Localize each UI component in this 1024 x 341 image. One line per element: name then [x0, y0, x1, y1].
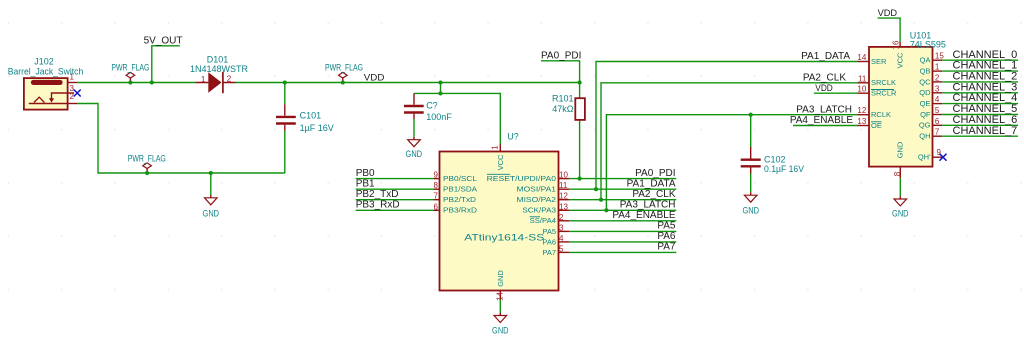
junction 5V_OUT tap [150, 80, 154, 84]
wire VDD tap to C? and U? VCC [414, 83, 500, 144]
pin 9 QH' [933, 156, 943, 158]
wire PA1_DATA run [596, 62, 858, 190]
svg-text:8: 8 [893, 171, 902, 176]
svg-text:QG: QG [919, 121, 931, 130]
wire PB0 label [356, 178, 434, 180]
wire CHANNEL_4 [942, 103, 1018, 105]
junction PWR_FLAG2 [341, 80, 345, 84]
pin 2 SS/PA4 [559, 220, 570, 222]
svg-text:5V_OUT: 5V_OUT [144, 36, 183, 47]
svg-text:1: 1 [70, 73, 75, 82]
pin 5 QF [933, 114, 943, 116]
svg-text:1: 1 [491, 145, 500, 150]
svg-text:5: 5 [935, 106, 940, 115]
pin 12 MISO/PA2 [559, 199, 570, 201]
wire CHANNEL_7 [942, 135, 1018, 137]
svg-text:PA2_CLK: PA2_CLK [632, 189, 676, 200]
svg-text:8: 8 [434, 181, 439, 190]
wire CHANNEL_1 [942, 70, 1018, 72]
svg-text:PA5: PA5 [542, 227, 556, 236]
svg-text:14: 14 [857, 53, 866, 62]
pin 1 J102 [68, 82, 77, 84]
wire PB3_RxD label [356, 209, 434, 211]
svg-text:VDD: VDD [364, 72, 385, 83]
svg-text:QA: QA [920, 56, 931, 65]
no-connect J102 pin3 [74, 90, 81, 97]
svg-text:VDD: VDD [815, 83, 833, 94]
pin 10 SRCLR [858, 92, 870, 94]
svg-text:7: 7 [434, 192, 439, 201]
svg-text:SRCLK: SRCLK [871, 78, 896, 87]
svg-text:SER: SER [871, 57, 887, 66]
wire CHANNEL_5 [942, 114, 1018, 116]
wire PA0_PDI row [569, 178, 676, 180]
svg-text:47kΩ: 47kΩ [552, 104, 574, 114]
svg-text:13: 13 [559, 202, 568, 211]
svg-text:4: 4 [935, 95, 940, 104]
svg-text:QE: QE [920, 99, 931, 108]
svg-text:16: 16 [892, 40, 901, 49]
label PA4_ENABLE right [790, 115, 858, 126]
svg-text:PA2_CLK: PA2_CLK [803, 73, 847, 84]
svg-text:PA7: PA7 [542, 248, 556, 257]
label VDD top right [878, 8, 901, 42]
pin 11 MOSI/PA1 [559, 188, 570, 190]
wire PB2_TxD label [356, 199, 434, 201]
svg-text:GND: GND [406, 149, 423, 159]
pin 2 J102 [68, 103, 77, 105]
wire CHANNEL_2 [942, 81, 1018, 83]
ground GND under C102 [742, 195, 759, 215]
pin 4 PA6 [559, 241, 570, 243]
svg-text:PA6: PA6 [657, 231, 676, 242]
diode D101 1N4148WSTR [190, 55, 249, 94]
svg-text:2: 2 [227, 75, 232, 84]
svg-text:PB3/RxD: PB3/RxD [443, 206, 478, 215]
power flag PWR_FLAG 3 [128, 153, 166, 173]
pin 5 PA7 [559, 251, 570, 253]
svg-text:PA0_PDI: PA0_PDI [541, 50, 581, 61]
pin 3 QD [933, 92, 943, 94]
svg-text:U?: U? [507, 131, 519, 141]
junction R101 top [578, 80, 582, 84]
svg-text:10: 10 [857, 85, 866, 94]
pin 16 VCC [899, 42, 901, 47]
svg-text:11: 11 [559, 181, 568, 190]
svg-text:GND: GND [895, 141, 904, 158]
wire PA7 row [569, 251, 676, 253]
wire PA1_DATA row [569, 188, 676, 190]
svg-text:4: 4 [559, 234, 564, 243]
junction PWR_FLAG3 [145, 171, 149, 175]
svg-text:9: 9 [434, 171, 439, 180]
wire CHANNEL_0 [942, 59, 1018, 61]
svg-text:11: 11 [858, 74, 867, 83]
svg-text:MISO/PA2: MISO/PA2 [517, 195, 557, 204]
label PA0_PDI top [541, 50, 581, 82]
connector J102 Barrel_Jack_Switch [8, 57, 84, 110]
svg-text:13: 13 [857, 117, 866, 126]
pin 13 OE [858, 125, 870, 127]
capacitor C102 0.1uF 16V [741, 115, 804, 196]
svg-text:RESET/UPDI/PA0: RESET/UPDI/PA0 [487, 174, 556, 183]
svg-text:3: 3 [935, 84, 940, 93]
svg-text:GND: GND [892, 208, 909, 218]
svg-text:6: 6 [935, 117, 940, 126]
power flag PWR_FLAG 1 [111, 63, 149, 83]
svg-text:15: 15 [935, 52, 944, 61]
ground GND under C? [406, 140, 423, 160]
svg-text:PB3_RxD: PB3_RxD [356, 200, 400, 211]
svg-text:GND: GND [742, 206, 759, 216]
junction R101 bottom [578, 177, 582, 181]
pin 6 QG [933, 124, 943, 126]
junction VDD branch [438, 91, 442, 95]
pin 3 PA5 [559, 230, 570, 232]
junction PA3 riser [604, 208, 608, 212]
svg-text:PA4_ENABLE: PA4_ENABLE [790, 115, 854, 126]
svg-text:PWR_FLAG: PWR_FLAG [325, 63, 363, 73]
label VDD right [814, 83, 858, 94]
svg-text:PB2/TxD: PB2/TxD [443, 195, 477, 204]
mcu U? ATtiny1614-SS [433, 131, 569, 301]
resistor R101 47k [552, 83, 585, 179]
wire PA6 row [569, 241, 676, 243]
ground GND under U101 [892, 178, 909, 218]
svg-text:C?: C? [426, 100, 438, 110]
ground GND lower-left [203, 173, 220, 219]
svg-text:QD: QD [919, 88, 931, 97]
wire PA4_ENABLE row [569, 220, 676, 222]
svg-text:12: 12 [857, 106, 866, 115]
pin 13 SCK/PA3 [559, 209, 570, 211]
svg-text:2: 2 [559, 213, 564, 222]
svg-text:PA7: PA7 [657, 242, 676, 253]
wire 5V rail [77, 82, 580, 84]
svg-text:6: 6 [434, 202, 439, 211]
svg-text:CHANNEL_7: CHANNEL_7 [953, 125, 1018, 137]
svg-text:3: 3 [559, 223, 564, 232]
svg-text:1µF 16V: 1µF 16V [300, 123, 334, 133]
wire CHANNEL_6 [942, 124, 1018, 126]
capacitor C? 100nF [404, 93, 452, 139]
svg-text:PA4_ENABLE: PA4_ENABLE [612, 210, 676, 221]
junction C101 top [283, 80, 287, 84]
svg-text:1N4148WSTR: 1N4148WSTR [190, 64, 249, 74]
power flag PWR_FLAG 2 [325, 63, 363, 83]
svg-text:7: 7 [935, 128, 940, 137]
junction VDD rail tap [438, 80, 442, 84]
wire PA3_LATCH row [569, 209, 676, 211]
pin 2 QC [933, 81, 943, 83]
svg-text:74LS595: 74LS595 [910, 39, 946, 49]
svg-text:PA6: PA6 [542, 237, 556, 246]
wire PA2_CLK row [569, 199, 676, 201]
svg-text:10: 10 [559, 171, 568, 180]
svg-text:SS/PA4: SS/PA4 [530, 216, 556, 225]
label 5V_OUT [144, 36, 183, 83]
svg-text:100nF: 100nF [426, 112, 452, 122]
svg-text:VCC: VCC [496, 154, 505, 170]
svg-text:R101: R101 [552, 93, 574, 103]
svg-text:QH: QH [919, 132, 930, 141]
pin 1 VCC [499, 144, 501, 152]
svg-text:PB0: PB0 [356, 168, 375, 179]
capacitor C101 1uF 16V [276, 83, 334, 174]
svg-text:SCK/PA3: SCK/PA3 [522, 206, 556, 215]
svg-text:PA0_PDI: PA0_PDI [635, 168, 675, 179]
svg-text:PA1_DATA: PA1_DATA [627, 179, 676, 190]
svg-text:VDD: VDD [878, 8, 898, 19]
wire PB1 label [356, 188, 434, 190]
svg-text:GND: GND [203, 209, 220, 219]
svg-text:PB1/SDA: PB1/SDA [443, 185, 477, 194]
svg-text:QF: QF [920, 110, 931, 119]
wire PA3_LATCH run [606, 115, 857, 211]
junction PA1 riser [594, 187, 598, 191]
shift register U101 74LS595 [857, 31, 945, 179]
svg-text:PA3_LATCH: PA3_LATCH [620, 200, 676, 211]
junction PA2 riser [599, 198, 603, 202]
wire PA2_CLK run [601, 83, 858, 200]
svg-text:MOSI/PA1: MOSI/PA1 [517, 185, 557, 194]
pin 10 RESET/UPDI/PA0 [559, 178, 570, 180]
pin 12 RCLK [858, 114, 870, 116]
wire jack pin2 to lower rail [77, 104, 285, 174]
pin 8 PB1/SDA [433, 188, 439, 190]
svg-text:QC: QC [919, 77, 931, 86]
pin 14 SER [858, 61, 870, 63]
svg-text:PA3_LATCH: PA3_LATCH [796, 104, 852, 115]
svg-text:C101: C101 [300, 110, 322, 120]
svg-text:GND: GND [492, 326, 509, 336]
junction GND stem [209, 171, 213, 175]
no-connect QH' [940, 154, 947, 161]
svg-text:QH': QH' [918, 153, 931, 162]
svg-text:12: 12 [559, 192, 568, 201]
pin 6 PB3/RxD [433, 209, 439, 211]
wire PA5 row [569, 230, 676, 232]
svg-text:PA5: PA5 [657, 221, 676, 232]
pin 7 PB2/TxD [433, 199, 439, 201]
svg-text:PA1_DATA: PA1_DATA [801, 51, 850, 62]
pin 14 GND [499, 291, 501, 301]
pin 9 PB0/SCL [433, 178, 439, 180]
svg-text:VCC: VCC [895, 52, 904, 68]
pin 1 QB [933, 70, 943, 72]
pin 7 QH [933, 135, 943, 137]
ground GND under U? [492, 300, 509, 336]
svg-text:0.1µF 16V: 0.1µF 16V [764, 164, 804, 174]
wire CHANNEL_3 [942, 92, 1018, 94]
svg-text:PB0/SCL: PB0/SCL [443, 174, 477, 183]
svg-text:GND: GND [496, 270, 505, 287]
svg-text:PWR_FLAG: PWR_FLAG [111, 63, 149, 73]
svg-text:1: 1 [201, 75, 206, 84]
svg-text:PB2_TxD: PB2_TxD [356, 189, 399, 200]
svg-text:2: 2 [935, 73, 940, 82]
svg-text:RCLK: RCLK [871, 110, 891, 119]
pin 3 J102 [68, 92, 74, 94]
pin 8 GND [899, 167, 901, 179]
svg-text:1: 1 [935, 63, 940, 72]
junction C102 top [749, 113, 753, 117]
pin 11 SRCLK [858, 82, 870, 84]
svg-text:5: 5 [559, 244, 564, 253]
pin 4 QE [933, 103, 943, 105]
svg-text:PWR_FLAG: PWR_FLAG [128, 153, 166, 163]
svg-text:J102: J102 [34, 57, 54, 67]
svg-text:ATtiny1614-SS: ATtiny1614-SS [464, 232, 544, 242]
svg-text:PB1: PB1 [356, 179, 375, 190]
svg-text:QB: QB [920, 67, 931, 76]
pin 15 QA [933, 59, 943, 61]
junction PWR_FLAG1 [128, 80, 132, 84]
